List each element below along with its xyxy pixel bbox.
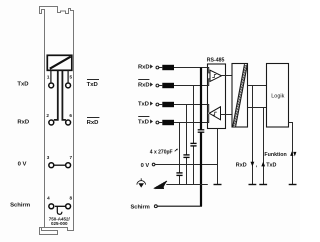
receiver triangle xyxy=(210,70,222,81)
transceiver box U1 xyxy=(208,64,226,129)
wire row3 xyxy=(159,104,163,106)
wire ground U1 xyxy=(217,129,219,185)
svg-text:Schirm: Schirm xyxy=(10,203,30,209)
wire receiver out xyxy=(222,75,233,77)
wire internal pass line right xyxy=(62,70,66,120)
svg-text:TxD: TxD xyxy=(266,163,276,169)
box diagonal xyxy=(50,57,71,69)
wire Schirm xyxy=(157,205,202,207)
wire jog row2 to receiver xyxy=(208,79,211,86)
capacitor C1 xyxy=(176,172,182,174)
svg-text:1: 1 xyxy=(47,74,50,79)
svg-text:0 V: 0 V xyxy=(18,161,27,167)
wire stub box to clamp 1 xyxy=(50,70,52,82)
clamp circle 8 xyxy=(66,204,71,209)
svg-text:Schirm: Schirm xyxy=(131,204,150,210)
svg-text:RxD: RxD xyxy=(138,64,150,70)
mounting foot xyxy=(40,228,58,235)
driver triangle xyxy=(209,107,220,120)
wire G2 xyxy=(252,86,254,185)
ground bar G3 xyxy=(259,184,267,186)
shield bus xyxy=(166,184,208,186)
terminal circle row3 xyxy=(156,103,159,106)
isolation barrier xyxy=(232,64,248,128)
wire row4 xyxy=(159,122,163,124)
svg-text:7: 7 xyxy=(70,155,73,160)
svg-text:Logik: Logik xyxy=(271,93,284,99)
shield hook xyxy=(57,206,62,214)
chassis ground symbol xyxy=(154,181,167,189)
wire barrier to logik upper xyxy=(248,85,267,87)
svg-text:6: 6 xyxy=(69,113,72,118)
wire 0V xyxy=(155,164,218,166)
clamp circle 7 xyxy=(66,163,71,168)
capacitor C2 xyxy=(183,154,189,156)
ground bar G1 xyxy=(214,184,222,186)
svg-text:RxD: RxD xyxy=(17,120,29,126)
svg-text:TxD: TxD xyxy=(87,82,98,88)
arrow down RxD xyxy=(251,162,255,167)
filter block row1 xyxy=(162,65,174,70)
bus module outline xyxy=(40,7,74,231)
svg-text:4: 4 xyxy=(47,196,50,201)
ground bar G4 xyxy=(289,184,297,186)
clamp circle 6 xyxy=(66,120,71,125)
wire stub box to clamp 5 xyxy=(67,70,69,82)
wire row3 link xyxy=(54,164,65,166)
svg-text:Funktion: Funktion xyxy=(264,152,286,158)
svg-text:8: 8 xyxy=(70,196,73,201)
svg-text:TxD: TxD xyxy=(17,81,28,87)
ground bar G2 xyxy=(249,184,257,186)
clamp circle 3 xyxy=(49,163,54,168)
svg-text:2: 2 xyxy=(46,113,49,118)
svg-text:4 x 270pF: 4 x 270pF xyxy=(150,149,173,155)
clamp circle 5 xyxy=(66,83,71,88)
svg-text:5: 5 xyxy=(70,74,73,79)
clamp circle 1 xyxy=(49,83,54,88)
wire jog driver to row3 xyxy=(208,105,209,113)
wire Funktion xyxy=(289,123,293,185)
wire jog row1 to receiver xyxy=(208,68,211,73)
filter block row4 xyxy=(162,120,174,125)
wire G3 xyxy=(263,108,265,185)
wire driver in xyxy=(221,114,233,116)
svg-text:RxD: RxD xyxy=(138,82,150,88)
svg-text:3: 3 xyxy=(47,155,50,160)
wire internal pass line left xyxy=(54,70,58,120)
capacitor C3 xyxy=(190,142,196,144)
filter block row2 xyxy=(162,83,174,88)
clamp circle 2 xyxy=(49,120,54,125)
svg-text:TxD: TxD xyxy=(138,119,149,125)
capacitor tap wire 1 xyxy=(179,123,181,173)
barrier hatch band xyxy=(233,64,248,127)
label arrow xyxy=(175,149,178,151)
terminal circle row2 xyxy=(156,84,159,87)
shield tap wire thick xyxy=(200,68,202,130)
electronics box xyxy=(47,55,72,70)
terminal circle row1 xyxy=(156,66,159,69)
svg-text:TxD: TxD xyxy=(138,101,149,107)
svg-text:RxD: RxD xyxy=(236,163,247,169)
svg-text:RxD: RxD xyxy=(87,120,99,126)
capacitor tap wire 2 xyxy=(186,105,188,155)
svg-text:0 V: 0 V xyxy=(141,163,150,169)
capacitor tap wire 3 xyxy=(193,86,195,144)
wire row4 link xyxy=(55,205,65,207)
filter block row3 xyxy=(162,102,174,107)
clamp circle 4 xyxy=(49,204,54,209)
arrows Funktion xyxy=(290,151,293,156)
svg-text:RS-485: RS-485 xyxy=(207,57,225,63)
wire row2 xyxy=(159,85,163,87)
terminal circle row4 xyxy=(156,121,159,124)
logic box xyxy=(267,64,289,128)
svg-text:025-000: 025-000 xyxy=(51,221,68,226)
wire jog driver to row4 xyxy=(208,114,209,123)
wire row1 xyxy=(159,67,163,69)
capacitor C4 xyxy=(198,129,205,131)
equipotential symbol xyxy=(140,178,142,181)
arrow up TxD xyxy=(261,162,265,167)
terminal circle Schirm xyxy=(154,205,157,208)
wire barrier to logik lower xyxy=(248,107,267,109)
terminal circle 0V xyxy=(152,163,155,166)
